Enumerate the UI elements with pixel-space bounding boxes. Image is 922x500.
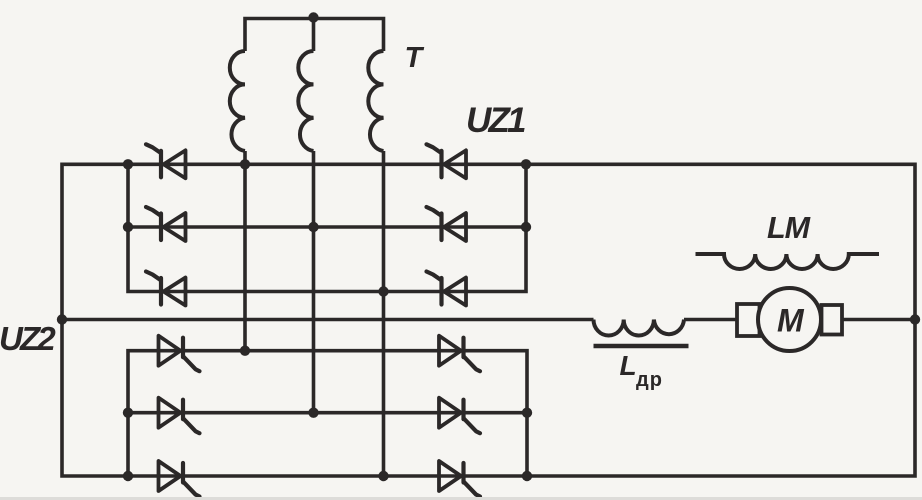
thyristor VS4 (UZ1 row 1, right): [427, 144, 467, 178]
junction: right lower collector / row 6: [522, 471, 532, 481]
wire: choke to motor: [684, 318, 737, 322]
junction: right lower collector / row 5: [522, 408, 532, 418]
svg-text:LM: LM: [767, 211, 811, 245]
wire: phase A column: [243, 151, 247, 351]
wire: motor to right edge: [842, 318, 915, 322]
motor M armature circle: [758, 288, 821, 351]
thyristor VS12 (UZ2 row 6, right): [439, 461, 480, 497]
thyristor VS10 (UZ2 row 4, right): [439, 336, 480, 372]
thyristor VS1 (UZ1 row 1, left): [146, 144, 186, 178]
thyristor VS2 (UZ1 row 2, left): [146, 207, 186, 241]
thyristor VS6 (UZ1 row 3, right): [427, 272, 467, 306]
junction: right collector / row 1: [521, 159, 531, 169]
inductor L_dr (smoothing choke) winding: [594, 320, 685, 336]
junction: phase A / row 4: [240, 346, 250, 356]
thyristor VS8 (UZ2 row 5, left): [159, 398, 200, 434]
transformer T winding, phase B: [298, 51, 313, 151]
wire: phase B column: [312, 151, 316, 413]
junction: phase B / row 5: [308, 408, 318, 418]
junction: left lower collector / row 6: [123, 471, 133, 481]
junction: top bus / phase B: [308, 12, 318, 22]
junction: phase A / row 1: [240, 159, 250, 169]
wire: transformer top bus with phase stubs: [245, 19, 384, 52]
junction: phase B / row 2: [308, 222, 318, 232]
transformer T winding, phase C: [368, 51, 383, 151]
thyristor VS3 (UZ1 row 3, left): [146, 272, 186, 306]
wire: UZ1 row 2: [128, 225, 526, 229]
svg-text:UZ1: UZ1: [466, 101, 525, 140]
junction: right edge / motor line: [910, 314, 920, 324]
junction: phase C / row 6: [378, 471, 388, 481]
motor M left brush: [737, 304, 760, 336]
thyristor VS9 (UZ2 row 6, left): [159, 461, 200, 497]
transformer T winding, phase A: [230, 51, 245, 151]
junction: left collector / row 1: [123, 159, 133, 169]
thyristor VS7 (UZ2 row 4, left): [159, 336, 200, 372]
inductor L_dr core bar: [594, 344, 689, 349]
junction: right collector / row 2: [521, 222, 531, 232]
svg-text:T: T: [405, 42, 425, 74]
thyristor VS5 (UZ1 row 2, right): [427, 207, 467, 241]
motor M right brush: [822, 305, 843, 335]
svg-text:UZ2: UZ2: [0, 320, 56, 357]
thyristor VS11 (UZ2 row 5, right): [439, 398, 480, 434]
svg-text:L: L: [620, 350, 637, 381]
svg-text:др: др: [636, 369, 663, 391]
junction: left lower collector / row 5: [123, 408, 133, 418]
wire: UZ1 group frame (left collector, row 3, right collector): [128, 164, 526, 291]
bottom edge artifact strip: [0, 497, 922, 500]
wire: UZ2 group frame (left collector, row 4, right collector): [128, 351, 527, 476]
wire: phase C column: [382, 151, 386, 476]
svg-text:M: M: [777, 303, 805, 339]
junction: left edge / motor line: [57, 314, 67, 324]
wire: outer loop (row 1 bus, right edge, bottom row 6 bus, left edge): [62, 164, 915, 476]
junction: left collector / row 2: [123, 222, 133, 232]
wire: motor supply line (left part): [62, 318, 594, 322]
junction: phase C / row 3: [378, 286, 388, 296]
wire: UZ2 row 5: [128, 411, 527, 415]
inductor LM (motor field winding): [696, 254, 880, 269]
